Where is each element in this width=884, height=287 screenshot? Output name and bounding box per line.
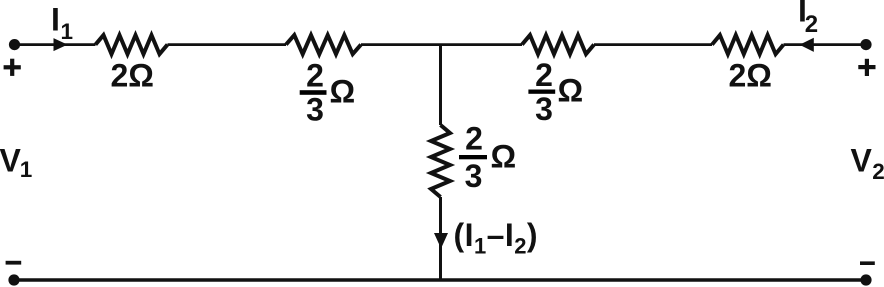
svg-text:2: 2 [306, 58, 324, 94]
polarity plus top-right [858, 59, 875, 76]
svg-text:2: 2 [872, 159, 884, 184]
wire top segment 2 (R1 to R2) [168, 43, 287, 46]
svg-text:2: 2 [535, 57, 553, 93]
wire shunt lower (R5 to bottom rail, node B) [439, 197, 442, 280]
svg-text:1: 1 [61, 19, 74, 44]
svg-text:3: 3 [465, 158, 483, 194]
label 2/3 ohm fraction left [300, 58, 355, 128]
svg-text:1: 1 [20, 157, 33, 182]
svg-text:3: 3 [535, 91, 553, 127]
label 2/3 ohm fraction middle shunt [459, 120, 516, 194]
resistor R3 2/3 ohm right-middle [522, 35, 594, 54]
svg-text:V: V [0, 142, 22, 178]
wire top segment 1 (terminal to R1) [15, 43, 96, 46]
svg-text:Ω: Ω [330, 74, 356, 110]
wire bottom rail [14, 278, 866, 282]
resistor R4 2ohm right [712, 35, 784, 54]
svg-text:2: 2 [465, 120, 483, 156]
wire top segment 3 (R2 to node A to R3) [361, 43, 522, 46]
label 2/3 ohm fraction right [528, 57, 583, 127]
resistor R5 2/3 ohm shunt vertical [431, 125, 450, 197]
svg-text:Ω: Ω [491, 138, 517, 174]
svg-text:(I1–I2): (I1–I2) [454, 217, 539, 259]
wire top segment 5 (R4 to terminal) [784, 43, 867, 46]
svg-text:3: 3 [306, 92, 324, 128]
svg-text:I: I [51, 2, 60, 38]
current arrow down (I1-I2) [434, 233, 448, 249]
node terminal dot bottom-left [8, 274, 19, 285]
svg-text:Ω: Ω [558, 73, 584, 109]
current arrow I2 left-pointing [800, 38, 814, 52]
svg-text:2Ω: 2Ω [729, 58, 772, 94]
polarity minus bottom-left [6, 261, 22, 265]
polarity plus top-left [4, 59, 21, 76]
svg-text:2: 2 [805, 11, 818, 38]
wire shunt upper (node A to R5) [439, 45, 442, 125]
resistor R2 2/3 ohm left-middle [286, 35, 361, 54]
node terminal dot top-left [9, 39, 20, 50]
node terminal dot top-right [860, 39, 871, 50]
wire top segment 4 (R3 to R4) [594, 43, 712, 46]
svg-text:2Ω: 2Ω [111, 58, 154, 94]
resistor R1 2ohm left [96, 35, 168, 54]
polarity minus bottom-right [860, 261, 875, 265]
current arrow I1 right-pointing [54, 38, 68, 51]
node terminal dot bottom-right [860, 274, 871, 285]
svg-text:V: V [851, 142, 873, 178]
